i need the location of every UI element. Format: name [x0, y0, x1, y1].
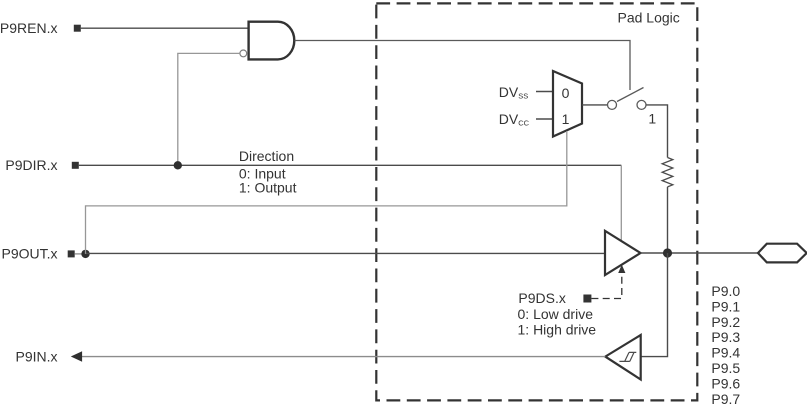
arrowhead P9IN.x	[71, 351, 82, 362]
wire direction control to output driver	[620, 165, 622, 240]
wire pad node to schmitt input	[641, 253, 668, 357]
wire schmitt output to P9IN	[82, 356, 605, 358]
svg-text:P9.2: P9.2	[711, 314, 740, 330]
svg-text:P9.0: P9.0	[711, 283, 740, 299]
switch lever	[617, 88, 644, 102]
wire DVss stub	[536, 91, 553, 93]
terminal square P9DS.x	[583, 295, 591, 303]
wire mux output to switch	[582, 104, 608, 106]
svg-text:P9.5: P9.5	[711, 360, 740, 376]
wire P9DIR.x direction line	[79, 164, 622, 166]
inverter bubble on AND input	[240, 50, 247, 57]
svg-text:1: Output: 1: Output	[239, 180, 297, 196]
svg-text:P9IN.x: P9IN.x	[15, 348, 57, 364]
wire square to junction	[75, 253, 86, 255]
svg-text:P9DIR.x: P9DIR.x	[5, 157, 57, 173]
svg-text:0: Low drive: 0: Low drive	[518, 306, 594, 322]
junction on P9DIR line	[174, 161, 182, 169]
svg-text:Pad Logic: Pad Logic	[618, 9, 680, 25]
terminal square P9DIR.x	[72, 162, 79, 169]
wire AND output to switch	[295, 41, 631, 91]
junction at pad node	[663, 248, 672, 257]
pad logic boundary	[376, 3, 697, 400]
svg-text:P9.4: P9.4	[711, 345, 740, 361]
wire P9DIR to inverted input	[178, 53, 240, 165]
svg-text:1: 1	[562, 111, 570, 127]
svg-text:P9OUT.x: P9OUT.x	[1, 245, 57, 261]
pad (pin) hexagon	[758, 244, 807, 263]
svg-text:P9.7: P9.7	[711, 391, 740, 406]
wire P9OUT.x to driver input	[86, 252, 606, 254]
wire DVcc stub	[536, 118, 553, 120]
terminal square P9REN.x	[74, 25, 81, 32]
svg-text:P9REN.x: P9REN.x	[0, 20, 58, 36]
svg-text:1: High drive: 1: High drive	[518, 321, 597, 337]
switch contact circle left	[608, 100, 617, 109]
wire P9REN.x to AND input	[81, 27, 249, 29]
hysteresis symbol	[619, 352, 636, 361]
svg-text:Direction: Direction	[239, 148, 294, 164]
svg-text:P9.6: P9.6	[711, 376, 740, 392]
svg-text:0: 0	[562, 85, 570, 101]
svg-text:P9.3: P9.3	[711, 329, 740, 345]
schmitt trigger input buffer	[605, 335, 640, 380]
terminal square P9OUT.x	[68, 250, 75, 257]
wire driver output to pad	[641, 252, 759, 254]
output driver buffer	[605, 231, 641, 275]
wire resistor to pad node	[667, 187, 669, 253]
junction on P9OUT line	[81, 250, 89, 258]
and-gate U1 (AND with inverted lower input)	[249, 22, 295, 60]
wire switch to resistor	[646, 105, 668, 158]
arrowhead into driver	[618, 265, 625, 273]
wire P9OUT branch to mux select	[86, 131, 567, 254]
switch contact circle right	[637, 100, 646, 109]
svg-text:1: 1	[648, 111, 656, 127]
mux (pullup/pulldown select)	[553, 71, 582, 137]
svg-text:P9DS.x: P9DS.x	[518, 290, 565, 306]
resistor (pull resistor)	[662, 158, 673, 187]
dashed wire P9DS to driver	[591, 273, 621, 299]
svg-text:P9.1: P9.1	[711, 298, 740, 314]
